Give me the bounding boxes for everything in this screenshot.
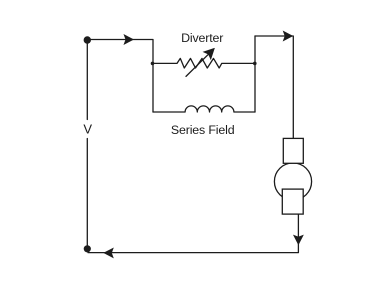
svg-text:Diverter: Diverter xyxy=(181,31,223,45)
svg-text:Series Field: Series Field xyxy=(171,123,235,137)
svg-text:V: V xyxy=(83,122,92,137)
